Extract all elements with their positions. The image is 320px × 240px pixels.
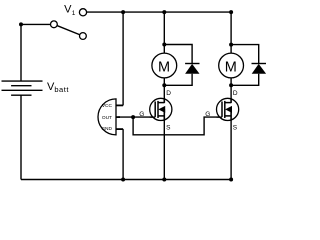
svg-text:batt: batt xyxy=(54,85,69,94)
svg-text:G: G xyxy=(139,111,144,118)
svg-text:D: D xyxy=(233,90,238,97)
svg-text:VCC: VCC xyxy=(102,103,113,109)
svg-text:S: S xyxy=(233,124,238,131)
svg-text:1: 1 xyxy=(72,10,76,17)
svg-text:M: M xyxy=(158,59,170,75)
svg-text:G: G xyxy=(205,111,210,118)
svg-text:S: S xyxy=(166,124,171,131)
svg-text:M: M xyxy=(225,59,237,75)
svg-text:GND: GND xyxy=(101,126,112,132)
svg-text:OUT: OUT xyxy=(102,115,112,121)
svg-text:D: D xyxy=(166,90,171,97)
